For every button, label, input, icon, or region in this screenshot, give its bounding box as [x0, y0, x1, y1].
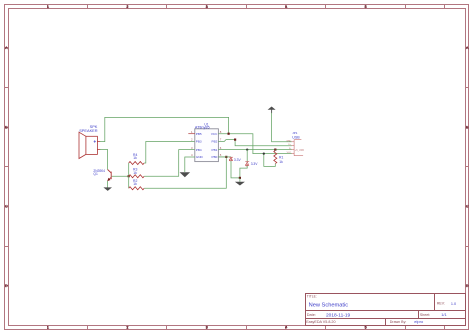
svg-text:1.0: 1.0 [451, 302, 456, 306]
wire resistor left bus [128, 163, 130, 188]
svg-text:ATtiny85: ATtiny85 [195, 126, 210, 130]
svg-text:PB0: PB0 [212, 155, 218, 159]
svg-text:D-: D- [289, 148, 292, 150]
svg-text:PB4: PB4 [196, 148, 202, 152]
wire U1 PB1 pin6 to USB D+ [218, 149, 291, 151]
svg-text:C: C [466, 204, 469, 209]
U1 pin 1 stub [188, 133, 195, 135]
resistor R2 1k [129, 179, 144, 190]
svg-text:GND: GND [286, 140, 291, 142]
wire D2 to ground node [240, 166, 247, 178]
connector JP1 USB [286, 131, 304, 156]
node D2 junction [246, 148, 248, 150]
svg-text:1k: 1k [133, 182, 137, 186]
U1 pin numbers [191, 130, 222, 157]
wire R3 to U1 PB4 [144, 150, 195, 177]
wire PB0 to D1 [218, 156, 231, 158]
svg-text:PB1: PB1 [212, 148, 218, 152]
svg-text:A: A [5, 45, 8, 50]
wire R1 bottom loop to VCC [264, 154, 276, 167]
svg-text:Drawn By:: Drawn By: [390, 320, 407, 324]
ground at Q1 emitter [103, 187, 112, 191]
svg-text:1k: 1k [133, 156, 137, 160]
svg-text:1k: 1k [279, 160, 283, 164]
svg-text:PB5: PB5 [196, 132, 202, 136]
IC U1 ATtiny85 [195, 122, 219, 161]
svg-text:elpro: elpro [414, 319, 424, 324]
resistor R3 1k [129, 168, 144, 178]
wire U1 VCC pin8 to USB [218, 134, 291, 154]
wire R4 to U1 PB3 [144, 142, 195, 164]
svg-text:New Schematic: New Schematic [309, 303, 349, 309]
svg-text:GND: GND [196, 155, 204, 159]
svg-text:C: C [5, 204, 8, 209]
node R1 VCC junction [263, 152, 265, 154]
svg-text:3.3V: 3.3V [251, 162, 259, 166]
speaker SPK [79, 124, 100, 159]
node R1 top junction [274, 149, 276, 151]
svg-text:+5_USB: +5_USB [295, 149, 304, 152]
svg-text:Q1: Q1 [93, 172, 98, 176]
svg-text:VCC: VCC [211, 132, 218, 136]
svg-text:A: A [466, 45, 469, 50]
svg-text:1/1: 1/1 [441, 312, 447, 317]
node PB0 junction [225, 156, 227, 158]
wire PB1 to D2 [246, 150, 248, 162]
wire U1 GND pin4 to ground [185, 157, 195, 172]
node VCC pin8 junction [228, 133, 230, 135]
wire R1 top [274, 150, 276, 151]
svg-text:USB: USB [292, 135, 300, 139]
svg-text:PB2: PB2 [212, 140, 218, 144]
svg-text:B: B [5, 124, 8, 129]
wire VCC symbol to USB VBUS [272, 113, 292, 142]
svg-text:TITLE:: TITLE: [307, 295, 317, 299]
VCC power symbol [268, 107, 276, 114]
wire R2 to U1 PB0 [144, 157, 226, 188]
wire ground node stem [239, 178, 241, 182]
node zener ground junction [239, 177, 241, 179]
svg-text:R1: R1 [279, 155, 283, 159]
svg-text:REV:: REV: [437, 302, 445, 306]
node PB2 junction [234, 139, 236, 141]
svg-text:D: D [466, 283, 469, 288]
svg-text:D: D [5, 283, 8, 288]
wire Q1 base to resistor bus [112, 175, 129, 177]
svg-text:2018-11-19: 2018-11-19 [326, 313, 351, 319]
zener diode D2 3.3V [245, 162, 258, 167]
resistor R1 1k [274, 151, 284, 164]
svg-text:PB3: PB3 [196, 140, 202, 144]
node base junction [128, 175, 130, 177]
svg-text:3.3V: 3.3V [234, 158, 242, 162]
zener diode D1 3.3V [229, 157, 241, 162]
ground at U1 pin4 [180, 172, 191, 177]
svg-text:EasyEDA V5.8.20: EasyEDA V5.8.20 [306, 320, 335, 324]
svg-text:Sheet:: Sheet: [420, 313, 430, 317]
svg-text:VCC: VCC [287, 152, 292, 154]
svg-text:Date:: Date: [307, 313, 316, 317]
ground at zeners [235, 182, 245, 186]
svg-text:SPEAKER: SPEAKER [79, 128, 98, 133]
wire U1 PB2 pin7 to USB D- [218, 140, 291, 146]
transistor Q1 2N3904 [93, 169, 111, 181]
wire Q1 emitter to ground [107, 181, 109, 188]
wire speaker pin2 to Q1 collector [100, 150, 108, 170]
svg-text:B: B [466, 124, 469, 129]
wire D1 to ground node [231, 161, 240, 178]
wire speaker pin1 to VCC top rail [100, 117, 229, 141]
resistor R4 1k [129, 153, 144, 165]
